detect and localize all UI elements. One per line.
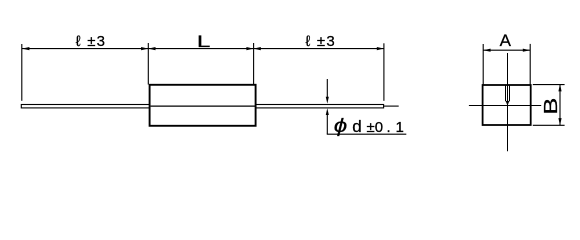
arrow right-pointing at body left (141, 47, 148, 50)
arrow left-pointing at body right (254, 47, 261, 50)
square body (end view) (483, 85, 531, 125)
svg-text:d±0.1: d±0.1 (352, 117, 404, 136)
A arrow left (483, 49, 490, 52)
lead wire (axial, through both sides) (21, 105, 383, 108)
svg-text:ℓ ±3: ℓ ±3 (76, 33, 106, 50)
B extension line bottom (533, 124, 565, 126)
horizontal centerline (469, 105, 541, 107)
wire break continuation line (right lead) (384, 105, 399, 107)
lead slot right line (509, 85, 511, 101)
arrow right-pointing at body right (L dim) (246, 47, 253, 50)
svg-text:ℓ ±3: ℓ ±3 (305, 33, 335, 50)
phi-d leader horizontal line (327, 133, 407, 135)
lead slot arrow tip (506, 101, 510, 106)
extension line body right (253, 43, 255, 85)
svg-text:ϕ: ϕ (334, 116, 348, 137)
A extension line left (482, 44, 484, 85)
arrow left-pointing at body left (L dim) (148, 47, 155, 50)
extension line left lead end (21, 44, 23, 101)
resistor body (side view) (150, 85, 256, 126)
extension line body left (147, 43, 149, 85)
lead slot (end view) left line (505, 85, 507, 101)
B dimension line (559, 84, 561, 125)
A arrow right (523, 49, 530, 52)
extension line right lead end (383, 43, 385, 101)
B arrow top (558, 84, 561, 91)
phi-d leader upper arrow (326, 79, 328, 99)
B extension line top (533, 84, 565, 86)
label B (rotated) (541, 98, 561, 115)
svg-text:A: A (500, 31, 512, 50)
wire centerline through body (151, 105, 256, 107)
svg-text:L: L (197, 32, 211, 51)
phi-d leader lower arrow (326, 108, 329, 115)
A extension line right (529, 44, 531, 85)
B arrow bottom (558, 118, 561, 125)
A dimension line (483, 49, 530, 51)
dimension line (top, shared) (22, 48, 384, 50)
arrow left tip (l dim) (22, 47, 29, 50)
arrow right tip (l dim) (377, 47, 384, 50)
svg-text:B: B (541, 98, 561, 115)
vertical centerline (507, 53, 509, 151)
